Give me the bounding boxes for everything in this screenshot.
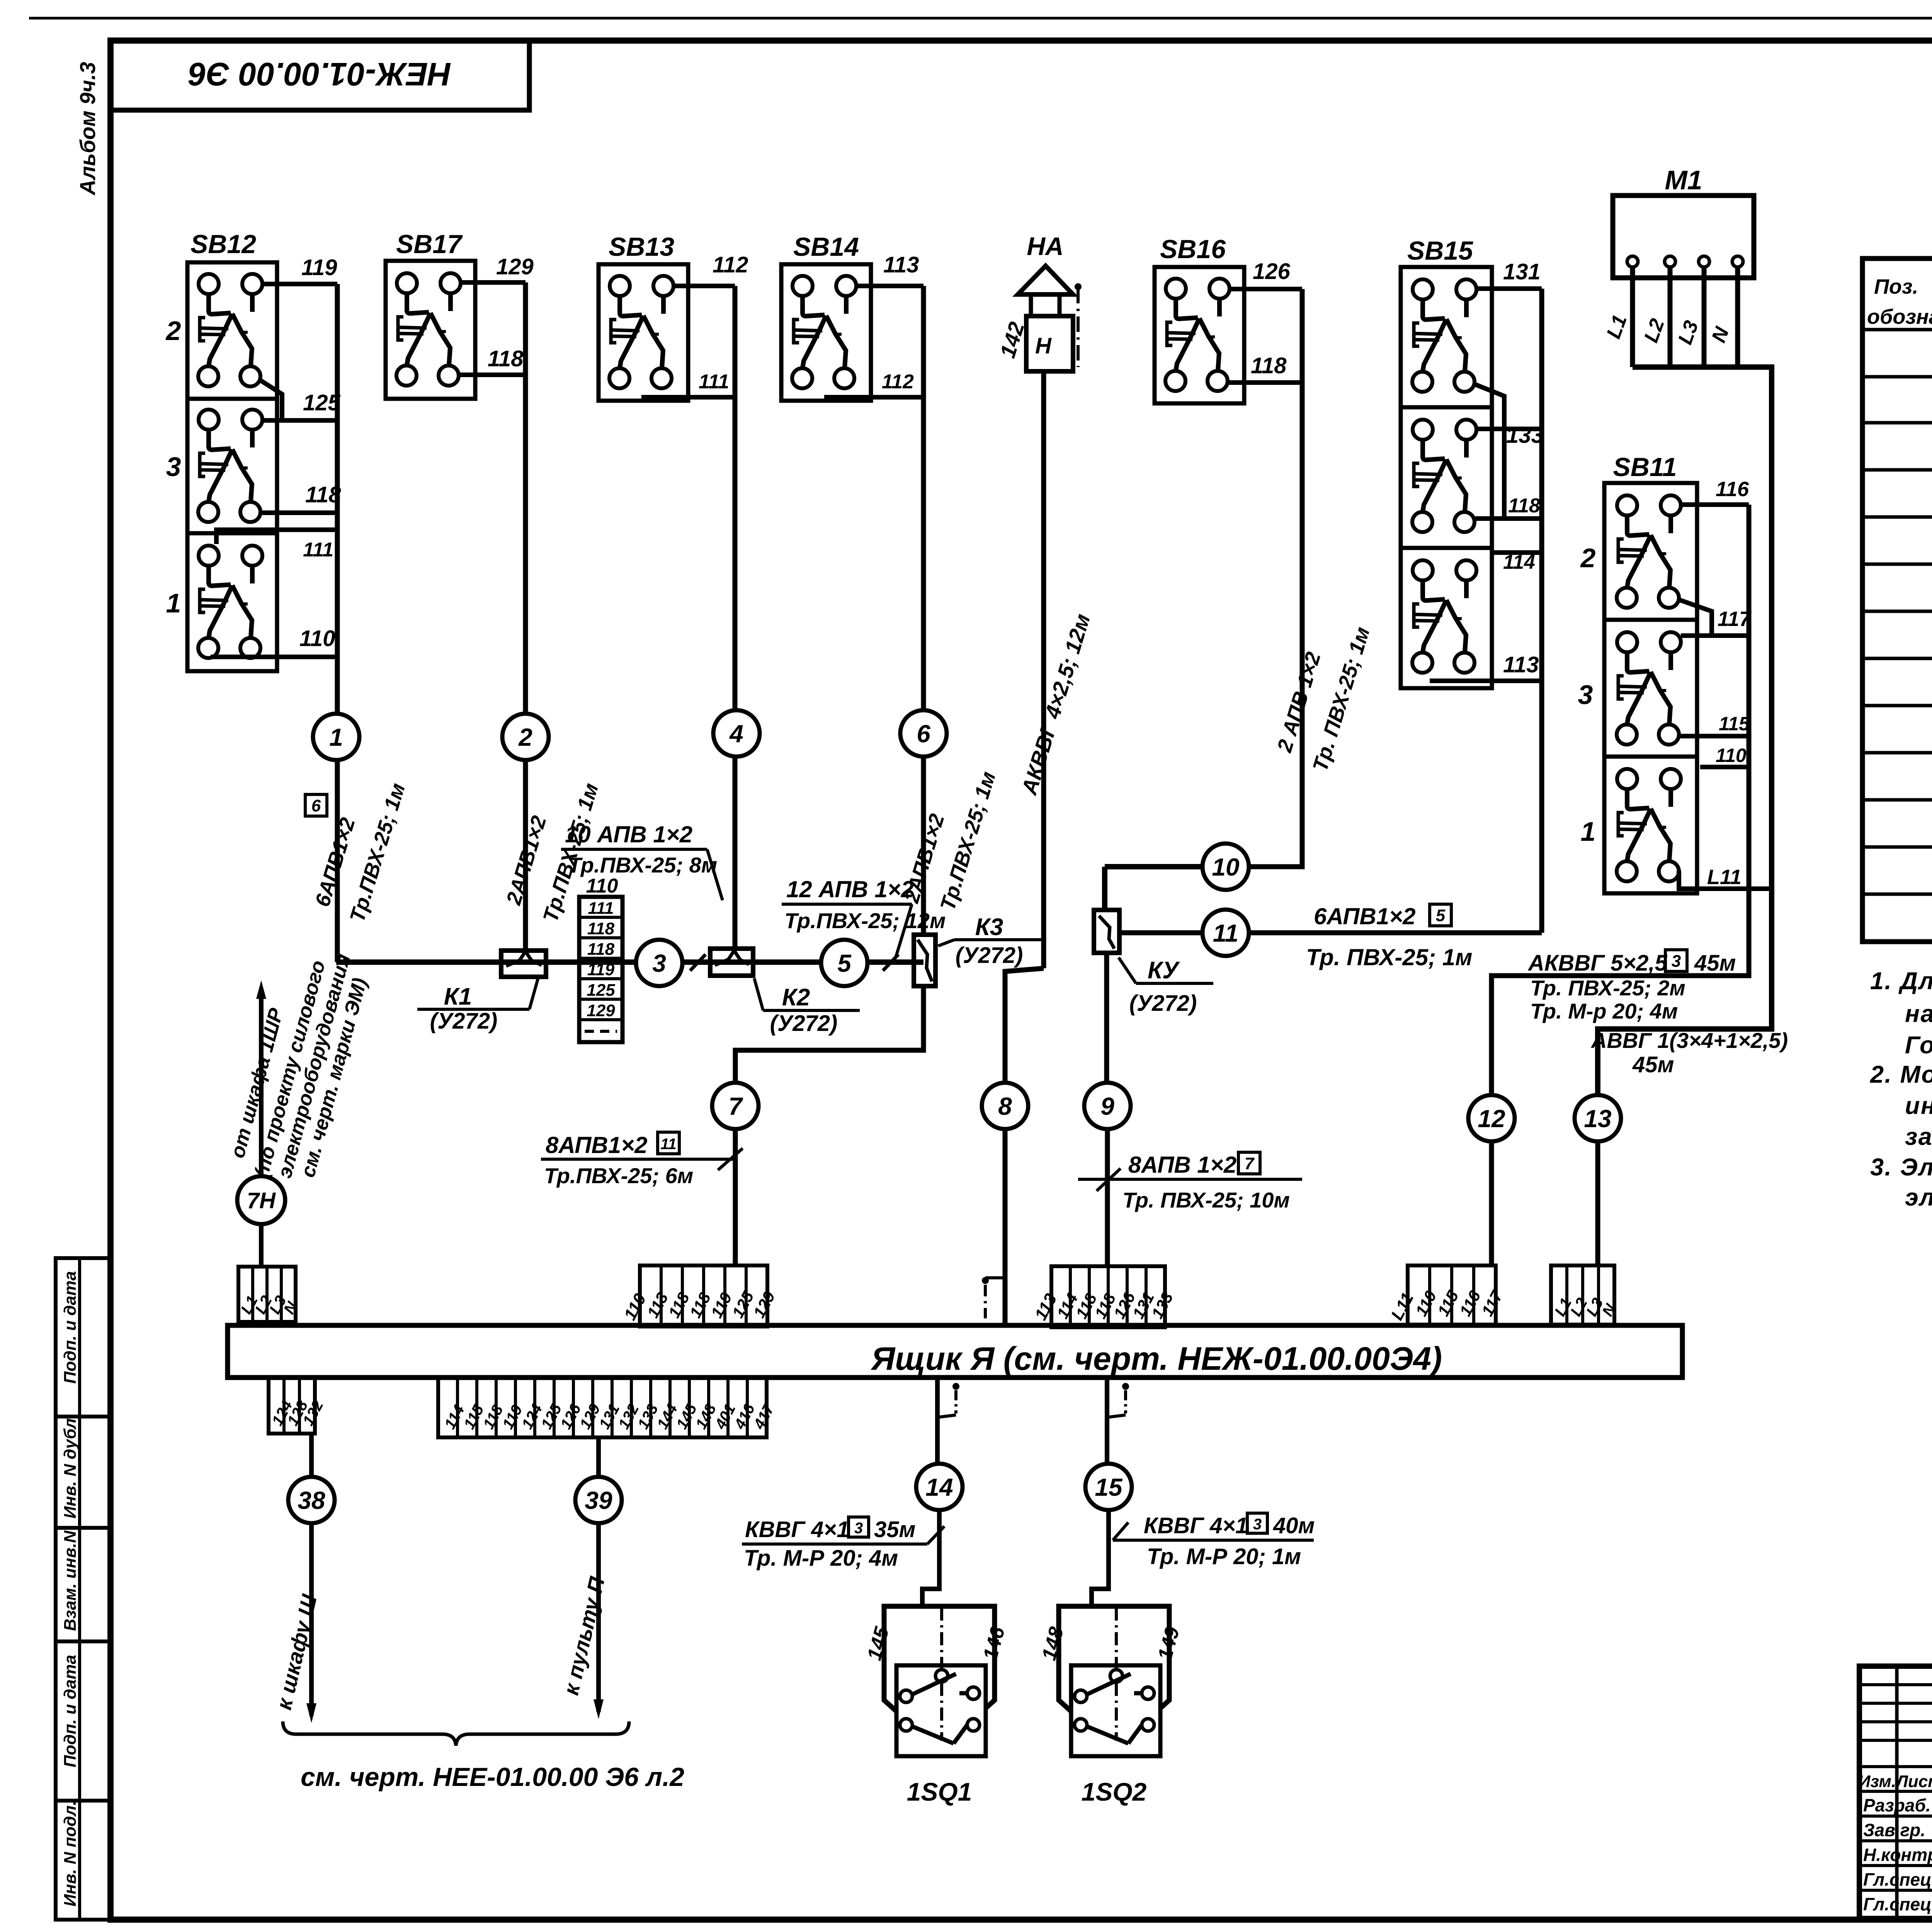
svg-text:SB12: SB12: [190, 230, 256, 259]
svg-text:Тр. ПВХ-25; 2м: Тр. ПВХ-25; 2м: [1530, 976, 1685, 1000]
junction box KU: [1094, 910, 1119, 953]
svg-text:Тр.ПВХ-25; 12м: Тр.ПВХ-25; 12м: [784, 908, 946, 933]
svg-text:35м: 35м: [874, 1517, 915, 1542]
svg-text:3: 3: [652, 949, 666, 977]
svg-text:39: 39: [585, 1486, 612, 1514]
svg-text:119: 119: [301, 255, 337, 280]
svg-text:7: 7: [728, 1092, 743, 1120]
motor M1 terminal 1: [1627, 256, 1638, 267]
svg-text:1: 1: [166, 588, 181, 618]
node 38: [288, 1477, 335, 1523]
node 3: [636, 940, 682, 986]
motor M1 terminal 2: [1665, 256, 1675, 267]
wire node 7Н to terminal block: [259, 1224, 264, 1267]
svg-text:L11: L11: [1707, 866, 1742, 889]
K3 designation: [954, 938, 1043, 941]
dash-dot earth mark at wire 14: [952, 1383, 959, 1390]
svg-text:SB11: SB11: [1613, 452, 1677, 482]
wire 110 from SB11: [1700, 765, 1749, 769]
svg-text:Тр. ПВХ-25; 10м: Тр. ПВХ-25; 10м: [1122, 1188, 1290, 1212]
svg-text:12 АПВ 1×2: 12 АПВ 1×2: [786, 876, 914, 902]
wire from HA down: [1041, 371, 1046, 968]
svg-text:зануления ВСН 296-81 ММСС: зануления ВСН 296-81 ММСС СССР.: [1905, 1123, 1932, 1150]
svg-text:112: 112: [882, 371, 914, 393]
wire 117 from SB11: [1681, 633, 1749, 638]
SB15 inner link: [1475, 384, 1504, 519]
switch SB13 contact: [599, 264, 688, 401]
svg-text:1. Длины проводов и труб д: 1. Длины проводов и труб даны с учетом 6…: [1870, 968, 1932, 995]
svg-text:7Н: 7Н: [247, 1188, 276, 1213]
svg-text:SB17: SB17: [396, 230, 463, 259]
wire bus from SB13 to node 4 and K2: [733, 286, 738, 950]
svg-text:обознач.: обознач.: [1867, 305, 1932, 328]
wire K3 to node 7: [735, 986, 923, 1083]
big terminal block below cabinet: [438, 1378, 767, 1437]
dash-dot earth mark at wire 15: [1122, 1383, 1129, 1390]
wire from cabinet to node 14: [935, 1378, 940, 1464]
svg-text:3: 3: [1578, 680, 1593, 710]
switch SB12 contact 1: [187, 533, 277, 671]
wire 116 from SB11: [1681, 502, 1749, 507]
svg-text:1SQ1: 1SQ1: [907, 1777, 972, 1806]
switch SB12 contact 3: [187, 399, 277, 533]
svg-text:Н: Н: [1035, 333, 1052, 359]
wire bus from SB14 to node 6 and K3: [921, 286, 926, 937]
wire node 14 to switch 1SQ1: [922, 1509, 939, 1607]
svg-text:АВВГ 1(3×4+1×2,5): АВВГ 1(3×4+1×2,5): [1590, 1028, 1788, 1053]
svg-text:111: 111: [699, 371, 729, 393]
svg-text:118: 118: [488, 346, 524, 371]
svg-text:1: 1: [1581, 816, 1596, 847]
svg-text:М1: М1: [1665, 165, 1702, 195]
svg-text:КУ: КУ: [1148, 957, 1180, 984]
siren HA horn symbol: [1018, 266, 1073, 294]
wire node10 to SB16 bus: [1105, 864, 1203, 869]
svg-text:Инв. N подл.: Инв. N подл.: [61, 1801, 80, 1906]
svg-text:12: 12: [1478, 1105, 1505, 1133]
siren HA dash-dot lead: [1077, 288, 1080, 367]
svg-text:129: 129: [587, 1001, 615, 1020]
svg-text:Подп. и дата: Подп. и дата: [61, 1655, 80, 1767]
switch SB15 contact bottom: [1401, 548, 1492, 688]
wire 119 from SB12: [263, 282, 337, 286]
svg-text:5: 5: [837, 949, 852, 977]
svg-text:131: 131: [1503, 259, 1541, 284]
arrow to cabinet Ш: [306, 1703, 316, 1723]
svg-text:SB13: SB13: [609, 232, 674, 262]
node 11: [1202, 910, 1249, 956]
svg-text:на изгибы, повороты и отхо: на изгибы, повороты и отходы согласно пи…: [1905, 1000, 1932, 1027]
svg-text:11: 11: [660, 1136, 677, 1153]
svg-text:Взам. инв.N: Взам. инв.N: [61, 1530, 80, 1631]
svg-text:126: 126: [1253, 259, 1291, 284]
node 4: [713, 710, 760, 757]
svg-text:К2: К2: [782, 984, 810, 1011]
wire 118 from SB17: [459, 372, 526, 377]
wire to node 39: [596, 1437, 601, 1478]
wire node 38 to arrow: [309, 1522, 314, 1716]
svg-text:7: 7: [1245, 1154, 1255, 1173]
junction box K2: [710, 949, 753, 976]
svg-text:38: 38: [298, 1486, 325, 1514]
svg-text:13: 13: [1584, 1105, 1611, 1133]
svg-text:10 АПВ 1×2: 10 АПВ 1×2: [565, 821, 692, 847]
wire 118 from SB16: [1228, 380, 1302, 385]
svg-text:НА: НА: [1027, 232, 1063, 260]
signature table: [1895, 1666, 1899, 1918]
switch SB16 contact: [1155, 267, 1244, 403]
svg-text:Тр. М-р 20; 4м: Тр. М-р 20; 4м: [1530, 999, 1678, 1023]
travel switch 1SQ1 contacts: [935, 1670, 948, 1682]
SB11 inner link: [1679, 600, 1712, 636]
terminal block under node 9: [1051, 1266, 1165, 1327]
node 8: [982, 1083, 1028, 1129]
switch SB15 contact middle: [1401, 407, 1492, 548]
wire bus from SB17 to node 2 and K1: [523, 282, 528, 951]
svg-text:Гл.спец.: Гл.спец.: [1863, 1869, 1932, 1889]
svg-text:111: 111: [303, 539, 333, 561]
node 14: [916, 1464, 963, 1510]
svg-text:6АПВ1×2: 6АПВ1×2: [1314, 903, 1415, 929]
wire 113 from SB15: [1430, 679, 1542, 683]
wire bus from SB16 to node 10: [1248, 289, 1302, 867]
svg-text:Альбом 9ч.3: Альбом 9ч.3: [75, 62, 100, 196]
inverted stamp text НЕЖ-01.00.00 Э6: [188, 56, 451, 92]
switch SB11 contact 3: [1604, 620, 1697, 757]
brace see drawing: [283, 1721, 629, 1746]
KU designation: [1136, 982, 1213, 985]
svg-text:8АПВ 1×2: 8АПВ 1×2: [1128, 1152, 1236, 1178]
top-left stamp box (inverted): [111, 41, 529, 110]
node 12: [1468, 1095, 1515, 1141]
node 7: [712, 1083, 759, 1129]
svg-text:116: 116: [1716, 478, 1749, 501]
svg-text:1SQ2: 1SQ2: [1082, 1777, 1147, 1806]
wire 112 from SB13: [674, 284, 735, 288]
svg-text:113: 113: [1503, 652, 1539, 677]
travel switch 1SQ2 body: [1059, 1606, 1169, 1718]
svg-text:110: 110: [1716, 745, 1747, 766]
svg-text:8АПВ1×2: 8АПВ1×2: [546, 1132, 647, 1158]
svg-text:45м: 45м: [1694, 951, 1736, 976]
svg-text:Поз.: Поз.: [1874, 275, 1918, 298]
svg-text:115: 115: [1719, 713, 1750, 735]
svg-text:Разраб.: Разраб.: [1863, 1795, 1931, 1815]
travel switch 1SQ1 contact box: [896, 1665, 986, 1756]
terminal block under node 12: [1408, 1265, 1496, 1325]
wire node 12 to terminal block: [1489, 1141, 1494, 1265]
node 13: [1575, 1095, 1621, 1141]
node 1: [313, 714, 359, 760]
wire 111 from SB12: [216, 530, 337, 544]
svg-text:SB16: SB16: [1160, 235, 1226, 264]
title block: [1859, 1666, 1932, 1918]
K2 designation: [763, 1009, 860, 1012]
travel switch 1SQ2 contacts: [1110, 1670, 1122, 1682]
svg-text:8: 8: [998, 1092, 1012, 1120]
terminal block under node 7: [640, 1265, 767, 1327]
svg-text:Тр. М-Р 20; 1м: Тр. М-Р 20; 1м: [1147, 1544, 1301, 1569]
wire 118 from SB15: [1475, 516, 1542, 521]
svg-text:Подп. и дата: Подп. и дата: [61, 1271, 80, 1384]
svg-text:2: 2: [165, 316, 181, 346]
node 6: [900, 710, 947, 757]
junction box K3: [914, 935, 935, 986]
svg-text:2. Монтаж защитного занулени: 2. Монтаж защитного зануления выполнить …: [1870, 1061, 1932, 1088]
svg-text:(У272): (У272): [1129, 991, 1197, 1016]
left stamp strip: [56, 1258, 111, 1920]
wire node 13 to terminal block: [1595, 1141, 1600, 1265]
svg-text:129: 129: [496, 254, 534, 279]
wire 118 from SB12: [261, 510, 337, 515]
wire 131 from SB15: [1477, 286, 1542, 291]
wire from M1 terminal 2: [1668, 267, 1673, 367]
siren HA body box: [1026, 316, 1073, 371]
svg-text:6: 6: [917, 720, 930, 748]
travel switch 1SQ2 contact box: [1071, 1665, 1160, 1756]
svg-text:Ящик Я (см. черт. НЕЖ-01.00: Ящик Я (см. черт. НЕЖ-01.00.00Э4): [871, 1340, 1442, 1377]
SB12 inner link: [260, 380, 282, 420]
arrow to cabinet 1ШР: [256, 980, 266, 999]
motor feeder bus: [1598, 367, 1772, 1096]
node 10: [1202, 844, 1249, 890]
cabinet Ящик Я: [228, 1325, 1682, 1378]
wire 133 from SB15: [1477, 427, 1542, 431]
sheet trim border top: [29, 17, 1932, 20]
switch SB17 contact: [386, 261, 475, 399]
svg-text:113: 113: [883, 252, 919, 277]
svg-text:SB14: SB14: [793, 232, 859, 262]
switch SB11 contact 2: [1604, 483, 1697, 620]
terminal block L1 L2 L3 N (left): [238, 1267, 296, 1322]
arrow to console П: [594, 1699, 604, 1719]
node 15: [1085, 1464, 1132, 1510]
node 7Н: [237, 1176, 285, 1224]
svg-text:118: 118: [587, 940, 615, 959]
crossing mark: [883, 954, 898, 971]
switch SB11 contact 1: [1604, 757, 1697, 893]
svg-text:112: 112: [713, 252, 748, 277]
svg-text:2: 2: [518, 723, 532, 751]
main junction bus: [336, 959, 923, 965]
svg-text:инструкции по монтажу защит: инструкции по монтажу защитного заземлен…: [1905, 1092, 1932, 1119]
junction box K1: [501, 951, 546, 977]
wire bus from SB11 to node 12: [1492, 505, 1749, 1096]
svg-text:119: 119: [587, 960, 615, 979]
svg-text:110: 110: [299, 626, 335, 651]
svg-text:3: 3: [1672, 952, 1681, 971]
motor M1 box: [1613, 196, 1754, 278]
wire 111 from SB13: [641, 395, 735, 400]
switch SB12 contact 2: [187, 262, 277, 399]
node 2: [502, 714, 549, 760]
svg-text:SB15: SB15: [1407, 236, 1473, 265]
materials table: [1862, 259, 1932, 942]
svg-text:11: 11: [1213, 919, 1238, 947]
wire node 8 to cabinet: [1003, 1129, 1008, 1325]
svg-text:15: 15: [1095, 1473, 1123, 1501]
svg-text:электроаппаратам защитить м: электроаппаратам защитить металлорукавом…: [1905, 1184, 1932, 1211]
svg-text:(У272): (У272): [956, 943, 1023, 968]
wire from M1 terminal 4: [1735, 267, 1740, 367]
svg-text:КВВГ 4×1: КВВГ 4×1: [1144, 1513, 1248, 1538]
svg-text:111: 111: [588, 899, 614, 918]
svg-text:К3: К3: [975, 914, 1003, 940]
svg-text:Н.контр.: Н.контр.: [1863, 1845, 1932, 1865]
wire bus from SB15 to node 11: [1539, 289, 1544, 933]
svg-text:2: 2: [1580, 543, 1596, 573]
svg-text:110: 110: [586, 875, 618, 897]
wire from cabinet to node 15: [1105, 1378, 1109, 1464]
svg-text:118: 118: [1508, 495, 1540, 517]
svg-text:см. черт. НЕЕ-01.00.00 Э6 л.2: см. черт. НЕЕ-01.00.00 Э6 л.2: [301, 1762, 684, 1792]
svg-text:Тр. ПВХ-25; 1м: Тр. ПВХ-25; 1м: [1306, 944, 1473, 970]
svg-text:4: 4: [729, 720, 743, 748]
wire from M1 terminal 1: [1630, 267, 1635, 367]
svg-text:3. Электрические проводки: 3. Электрические проводки в местах прохо…: [1870, 1154, 1932, 1181]
svg-text:КВВГ 4×1: КВВГ 4×1: [745, 1517, 849, 1542]
svg-text:14: 14: [925, 1473, 953, 1501]
wire node 39 to arrow: [596, 1522, 601, 1712]
svg-text:Тр.ПВХ-25; 8м: Тр.ПВХ-25; 8м: [568, 853, 717, 877]
svg-text:114: 114: [1503, 551, 1535, 573]
svg-text:НЕЖ-01.00.00 Э6: НЕЖ-01.00.00 Э6: [188, 56, 451, 92]
svg-text:Лист: Лист: [1895, 1772, 1932, 1791]
svg-text:3: 3: [1253, 1516, 1262, 1533]
svg-text:Госстроя СССР от 17.12.1979г: Госстроя СССР от 17.12.1979г. N89Д.: [1905, 1032, 1932, 1059]
wire bus from SB12 to node 1: [335, 284, 340, 962]
svg-text:Зав.гр.: Зав.гр.: [1863, 1820, 1925, 1840]
wire 115 from SB11: [1679, 734, 1749, 738]
svg-text:118: 118: [1251, 353, 1287, 378]
wire 125 from SB12: [263, 418, 337, 423]
svg-text:45м: 45м: [1632, 1052, 1674, 1077]
wire 113 from SB14: [857, 284, 923, 288]
wire node 11 horizontal: [1119, 930, 1542, 935]
travel switch 1SQ1 body: [884, 1606, 995, 1718]
svg-text:АКВВГ 5×2,5: АКВВГ 5×2,5: [1527, 951, 1668, 976]
motor M1 terminal 3: [1699, 256, 1709, 267]
wire 126 from SB16: [1230, 287, 1302, 291]
svg-text:Гл.спец.: Гл.спец.: [1863, 1894, 1932, 1914]
node 9: [1084, 1083, 1131, 1129]
wire 129 from SB17: [461, 280, 526, 285]
svg-text:10: 10: [1212, 853, 1239, 881]
wire HA elbow to node 8: [1005, 968, 1044, 1083]
wire L11 from SB11 to motor bus: [1679, 871, 1772, 889]
svg-text:Инв. N дубл.: Инв. N дубл.: [61, 1413, 80, 1519]
wire 112 from SB14: [824, 395, 923, 400]
svg-text:Изм.: Изм.: [1858, 1772, 1896, 1791]
node 5: [821, 940, 867, 986]
svg-text:125: 125: [587, 981, 615, 1000]
node 39: [575, 1477, 622, 1523]
svg-text:Тр. М-Р 20; 4м: Тр. М-Р 20; 4м: [744, 1546, 898, 1571]
K1 designation: [417, 1008, 529, 1011]
svg-text:(У272): (У272): [770, 1011, 838, 1036]
wire to node 38: [309, 1434, 314, 1478]
wire 114 from SB15: [1492, 550, 1542, 555]
motor M1 terminal 4: [1732, 256, 1743, 267]
crossing mark: [690, 954, 706, 971]
terminal block 124 128 132: [269, 1378, 315, 1434]
svg-text:6: 6: [311, 796, 321, 815]
svg-text:3: 3: [854, 1520, 863, 1537]
svg-text:К1: К1: [444, 983, 472, 1010]
svg-text:(У272): (У272): [430, 1009, 498, 1034]
wire node 9 to terminal block: [1105, 1128, 1110, 1266]
wire node10 elbow down to KU: [1102, 867, 1107, 910]
wire from M1 terminal 3: [1702, 267, 1707, 367]
dash-dot earth mark at node 8 wire: [982, 1277, 989, 1284]
svg-text:40м: 40м: [1273, 1513, 1315, 1538]
wire KU to node 9: [1104, 953, 1109, 1083]
wire 110 from SB12: [211, 655, 337, 659]
wire node 15 to switch 1SQ2: [1092, 1509, 1109, 1607]
switch SB15 contact top: [1401, 267, 1492, 407]
svg-text:3: 3: [166, 452, 181, 482]
svg-text:5: 5: [1436, 906, 1446, 925]
svg-text:1: 1: [329, 723, 343, 751]
terminal block under node 13: [1551, 1265, 1614, 1325]
wire node 7 to terminal block: [733, 1128, 738, 1265]
svg-text:Тр.ПВХ-25; 6м: Тр.ПВХ-25; 6м: [544, 1163, 693, 1188]
svg-text:133: 133: [1506, 423, 1544, 448]
switch SB14 contact: [781, 264, 871, 401]
terminal stack at K1: [579, 897, 622, 1042]
svg-text:9: 9: [1100, 1092, 1114, 1120]
svg-text:118: 118: [587, 919, 615, 938]
